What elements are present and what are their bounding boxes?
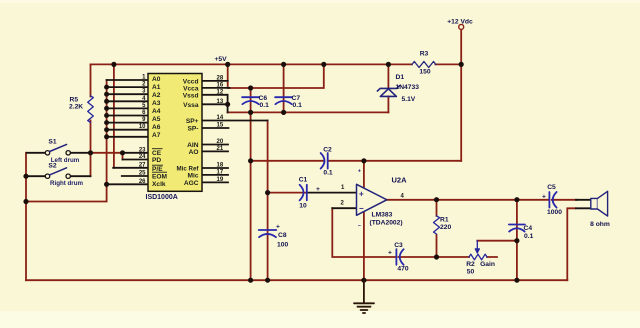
svg-text:20: 20 [217,139,224,145]
svg-text:D1: D1 [396,74,405,81]
junction bus A7b [104,134,109,139]
resistor R2 [469,254,487,260]
capacitor C6 [242,97,259,104]
pin line 19 AGC stub [202,181,228,183]
IC internal pin-name labels [152,76,199,188]
wire R1 stems [436,200,438,257]
switch S1 [45,144,70,155]
svg-text:10: 10 [299,203,307,210]
pin line 27 P/E [113,167,148,169]
pin line 16 Vcca [202,87,230,89]
pin line 3 A2 [107,93,148,95]
svg-text:+5V: +5V [214,56,227,63]
junction C6 bottom [248,110,253,115]
pin line S2 wires [27,175,91,177]
svg-text:Left drum: Left drum [51,157,80,164]
wire C6 stems [250,88,252,112]
pin line op-amp 1 [308,192,357,194]
svg-text:A3: A3 [152,100,161,107]
wire ground drop vertical A [250,112,252,280]
svg-text:220: 220 [440,224,451,231]
wire C1 input line [268,192,306,194]
svg-text:0.1: 0.1 [524,233,534,240]
svg-text:100: 100 [277,242,288,249]
wire speaker return [567,208,575,280]
resistor R3 [412,62,436,68]
pin line 23 CE [27,152,148,154]
pin line 17 Mic stub [202,174,228,176]
pin number labels [139,75,405,207]
junction C1 tee [265,190,270,195]
wire +12V vertical [460,29,462,161]
wire op-amp supply stem [363,161,365,188]
svg-text:28: 28 [217,75,224,81]
svg-text:+: + [359,190,364,199]
svg-text:8 ohm: 8 ohm [590,221,610,228]
svg-text:AGC: AGC [184,180,199,187]
svg-text:18: 18 [217,163,224,169]
wire +5V rail [91,63,462,65]
svg-text:13: 13 [217,99,224,105]
svg-text:15: 15 [217,123,224,129]
svg-text:CE: CE [152,150,162,157]
junction bus A1 [104,85,109,90]
svg-text:A1: A1 [152,84,161,91]
wire S1 to CE segment [91,152,123,154]
svg-text:C4: C4 [524,225,533,232]
junction bus A7 [104,127,109,132]
pin line 12-13 corner [227,95,229,113]
svg-text:LM383: LM383 [372,212,393,219]
svg-text:23: 23 [139,147,146,153]
svg-text:R5: R5 [70,97,79,104]
svg-text:0.1: 0.1 [323,170,333,177]
svg-text:C7: C7 [292,95,301,102]
svg-text:0.1: 0.1 [293,102,303,109]
pin line 12 Vssd [202,94,228,96]
wire address bus [26,80,107,202]
bottom light strip [0,311,640,328]
pin line 15 SP- stub [202,127,229,129]
wire left vertical [25,153,27,280]
junction C6-line rail [321,62,326,67]
svg-text:0.1: 0.1 [260,102,270,109]
junction C4 top [514,197,519,202]
resistor R1 [434,216,440,234]
junction R3 +12V [459,62,464,67]
pin line 26 Xclk [107,183,148,185]
svg-text:26: 26 [139,179,146,185]
wire C4 stems [516,200,518,281]
svg-text:A2: A2 [152,92,161,99]
svg-text:25: 25 [139,171,146,177]
junction bus A2 [104,92,109,97]
wire feedback pin2 [332,208,497,257]
svg-text:+12 Vdc: +12 Vdc [447,19,473,26]
wire P/E pull-up vertical [113,64,115,167]
wire C7 stems [283,64,285,112]
pin line 14 SP+ [202,120,268,122]
pin line 9 A6 [107,122,148,124]
wire bottom ground rail [26,279,567,281]
pin line 20 AIN stub [202,144,228,146]
pin line 13 Vssa [202,103,228,105]
junction C7 rail [281,62,286,67]
junction wiper tee [514,238,519,243]
svg-text:14: 14 [217,115,224,121]
svg-text:10: 10 [139,124,146,130]
svg-text:470: 470 [397,265,408,272]
junction bus A6 [104,120,109,125]
junction C6 top [248,85,253,90]
junction C7 bottom [281,110,286,115]
svg-text:Right drum: Right drum [50,180,83,187]
IC pin-name overlines [152,149,167,173]
speaker LS [591,191,608,216]
svg-text:R3: R3 [420,51,429,58]
pin line 18 MicRef stub [202,167,228,169]
junction P/E rail [111,62,116,67]
svg-text:21: 21 [217,146,224,152]
pin line 28 Vccd [202,80,228,82]
pin line 4 A3 [107,100,148,102]
capacitor C1 [300,185,307,201]
wire S2 riser [90,153,92,176]
svg-text:U2A: U2A [391,176,407,185]
svg-text:AO: AO [189,149,199,156]
op-amp U2A triangle [357,184,387,215]
svg-text:A0: A0 [152,76,161,83]
op-amp U1 IC ISD1000A body [148,74,202,192]
svg-text:ISD1000A: ISD1000A [146,194,178,201]
svg-text:S1: S1 [48,139,56,146]
pin line 24 PD [123,159,149,161]
junction rail ground [361,278,366,283]
top light strip [0,0,640,3]
svg-text:A6: A6 [152,124,161,131]
svg-text:C5: C5 [547,184,556,191]
junction bus A4 [104,106,109,111]
svg-text:1N4733: 1N4733 [396,84,420,91]
svg-text:+: + [388,250,392,257]
junction bus left [23,199,28,204]
wire Vccd/Vcca feed [227,64,229,88]
svg-text:+: + [542,194,546,201]
pin line 5 A4 [107,107,148,109]
svg-text:50: 50 [467,269,475,276]
wire R5 vertical [90,64,92,152]
op-amp input polarity marks [358,169,364,230]
svg-text:(TDA2002): (TDA2002) [370,220,403,227]
wire D1 stems [387,64,389,112]
wire +12V to op-amp supply [251,160,462,162]
capacitor C8 [259,230,277,237]
switch S2 [45,168,70,179]
svg-text:19: 19 [217,177,224,183]
junction R1 bottom [434,254,439,259]
potentiometer R2 wiper arrow [476,241,478,249]
svg-text:−: − [359,204,364,213]
resistor R5 [88,96,94,123]
svg-text:A5: A5 [152,116,161,123]
junction R1 top [434,197,439,202]
svg-text:12: 12 [217,89,224,95]
svg-text:SP-: SP- [188,126,199,133]
junction S2 left [23,174,28,179]
svg-text:Xclk: Xclk [152,181,166,188]
junction rail gnd-drop [248,278,253,283]
svg-text:C3: C3 [394,242,403,249]
terminal +12Vdc [459,24,464,29]
svg-text:17: 17 [217,169,224,175]
pin line 2 A1 [107,86,148,88]
ground symbol [354,280,374,313]
diode D1 zener [377,86,399,97]
pin line 10 A7 [107,129,148,131]
wire Vcca to C6 line [229,64,324,88]
svg-text:Mic: Mic [188,172,199,179]
junction CE [120,150,125,155]
pin line 6 A5 [107,115,148,117]
svg-text:27: 27 [139,162,146,168]
junction op-amp supply [361,158,366,163]
svg-text:Vssd: Vssd [183,92,199,99]
wire ground line upper [228,111,389,113]
svg-text:C8: C8 [278,232,287,239]
pin line A7b [107,136,148,138]
wire op-amp ground stem [363,212,365,281]
svg-text:150: 150 [419,69,430,76]
pin line 21 AO stub [202,150,228,152]
pin line op-amp 2 [332,207,356,209]
wire SP+ drop vertical B [267,121,269,281]
junction C2 left [248,158,253,163]
pin line 25 EOM stub [122,175,148,177]
svg-text:C1: C1 [299,177,308,184]
junction bus Xclk [104,182,109,187]
svg-text:+: + [316,186,320,193]
svg-text:16: 16 [217,82,224,88]
wire CE-PD jog [122,153,124,160]
svg-text:SP+: SP+ [186,118,199,125]
capacitor C7 [275,97,292,104]
wire output line [387,199,577,201]
switch action labels [50,157,83,187]
junction S1 R5 [88,150,93,155]
svg-text:PD: PD [152,157,161,164]
svg-text:+: + [358,169,361,175]
capacitor C5 [549,192,556,208]
svg-text:Vssa: Vssa [183,102,199,109]
wire R2 wiper line [477,240,517,242]
junction bus A5 [104,113,109,118]
pin line 1 A0 [107,79,148,81]
component value labels [48,19,609,276]
svg-text:A7: A7 [152,132,161,139]
capacitor C4 [509,225,525,232]
pin line speaker stubs [576,200,591,209]
junction Vcc rail [225,62,230,67]
junction rail C8 [265,278,270,283]
svg-text:−: − [358,224,361,230]
svg-text:24: 24 [139,154,146,160]
capacitor C2 [321,153,328,169]
svg-text:2.2K: 2.2K [69,104,83,111]
svg-text:1000: 1000 [547,209,562,216]
svg-text:Gain: Gain [480,261,495,268]
junction rail C4 [514,278,519,283]
junction D1 rail [386,62,391,67]
svg-text:A4: A4 [152,108,161,115]
svg-text:5.1V: 5.1V [402,96,416,103]
svg-text:EOM: EOM [152,173,168,180]
junction pin13 [225,102,230,107]
svg-text:+: + [276,224,280,231]
svg-text:Vccd: Vccd [183,78,199,85]
svg-text:R2: R2 [466,261,475,268]
svg-text:C6: C6 [259,95,268,102]
capacitor C3 [396,249,403,265]
svg-text:C2: C2 [323,147,332,154]
svg-text:R1: R1 [440,217,449,224]
junction bus A3 [104,99,109,104]
